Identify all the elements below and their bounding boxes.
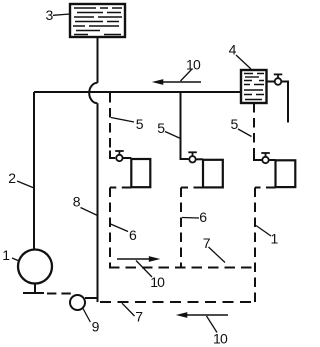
label 5 leader (branch 2) [165,132,181,139]
svg-text:5: 5 [136,116,144,132]
svg-text:6: 6 [199,209,207,225]
tank 3 [70,4,125,37]
wire: branch 3 return drop 1 [254,188,256,303]
label 9 leader [83,309,90,323]
branch 2 solid riser 5 [181,92,189,159]
svg-text:1: 1 [271,231,279,247]
branch 3 dashed riser 5 [253,103,255,154]
svg-text:4: 4 [229,41,237,57]
label 6 leader (branch 1) [111,224,129,232]
svg-text:6: 6 [129,227,137,243]
svg-text:8: 8 [73,194,81,210]
wire: radiator 1 return dashed [110,187,131,189]
arrow 10 middle (right) [117,256,160,277]
wire: radiator 2 return dashed [181,187,203,189]
svg-text:7: 7 [203,235,211,251]
wire: valve to radiator 2 [196,158,203,160]
label 8 leader [81,208,98,216]
wire: valve to radiator 3 [269,159,276,161]
svg-text:1: 1 [2,247,10,263]
label 3 leader [53,14,70,15]
svg-text:9: 9 [92,319,100,335]
label 7 leader (upper) [209,247,226,263]
wire: branch 3 elbow [254,151,262,161]
valve V3 [261,153,270,163]
wire: branch 1 return drop 6 [109,188,111,268]
wire hop over main supply line [89,83,97,103]
wire: central riser 8 [97,103,99,302]
label 7 leader (bottom) [122,303,135,316]
svg-text:10: 10 [150,274,165,290]
wire: upper return line dashed [109,267,255,269]
svg-text:3: 3 [46,7,54,23]
wire: boiler outlet stem [34,283,36,293]
wire: branch 1 elbow [110,151,115,159]
wire: lower return line dashed [100,301,255,303]
radiator 2 [203,160,223,188]
label 6 leader (branch 2) [182,217,199,220]
wire: boiler bottom bar [23,292,44,294]
label 1 leader [12,258,18,261]
label 5 leader (branch 3) [238,129,252,137]
wire: riser from tank 3 down [97,37,99,83]
svg-text:2: 2 [8,170,16,186]
svg-text:7: 7 [135,309,143,325]
valve V1 [115,151,124,161]
pump 9 [70,295,85,310]
boiler 1 [18,250,52,284]
wire: branch 2 return drop 6 [180,188,182,268]
label 1 leader (right) [256,226,271,237]
svg-text:5: 5 [157,120,165,136]
radiator 3 [276,160,296,187]
wire: radiator 3 return dashed [255,187,276,189]
wire: main supply line y=92 [34,91,241,93]
label 4 leader [236,55,251,69]
wire: left pipe 2 [33,92,35,250]
valve on tank 4 [267,74,289,122]
branch 1 dashed riser 5 [109,93,111,154]
arrow 10 top (left) [152,69,201,85]
svg-text:5: 5 [231,116,239,132]
label 5 leader (branch 1) [111,118,134,123]
wire: dashed return boiler to pump [47,293,72,295]
svg-text:10: 10 [213,330,228,346]
wire: pump to riser [85,297,98,299]
svg-text:10: 10 [186,56,201,72]
arrow 10 bottom (left) [176,312,228,332]
label 2 leader [17,181,34,188]
wire: valve to radiator 1 [123,157,132,159]
valve V2 [188,152,197,162]
radiator 1 [131,159,150,187]
tank 4 [241,70,267,103]
